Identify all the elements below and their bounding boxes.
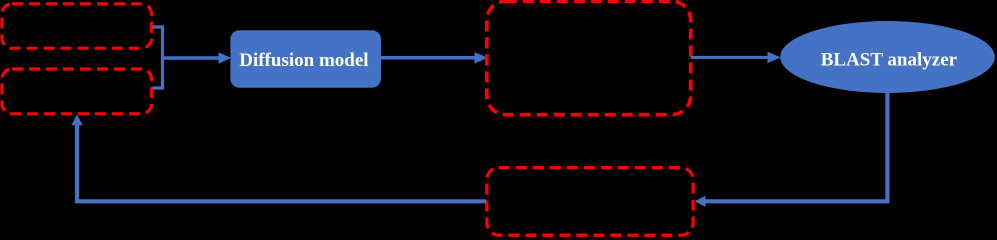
Diffusion model box bbox=[230, 30, 381, 87]
dashed middle box bbox=[487, 1, 691, 115]
wire: ellipse down and left to bottom box bbox=[705, 93, 887, 201]
wire: middle box to BLAST analyzer bbox=[691, 56, 768, 59]
dashed bottom box bbox=[487, 168, 693, 236]
BLAST analyzer ellipse bbox=[780, 21, 995, 93]
bracket joining box1 and box2 bbox=[153, 27, 163, 88]
wire: bracket to Diffusion model bbox=[163, 56, 220, 60]
wire: bottom box left, up to box 2 bbox=[77, 125, 486, 201]
wire: Diffusion model to middle box bbox=[381, 56, 475, 60]
dashed box 1 (top-left input) bbox=[2, 4, 152, 48]
svg-text:BLAST analyzer: BLAST analyzer bbox=[821, 49, 958, 70]
dashed box 2 (bottom-left input) bbox=[2, 69, 152, 114]
svg-text:Diffusion model: Diffusion model bbox=[239, 50, 368, 71]
